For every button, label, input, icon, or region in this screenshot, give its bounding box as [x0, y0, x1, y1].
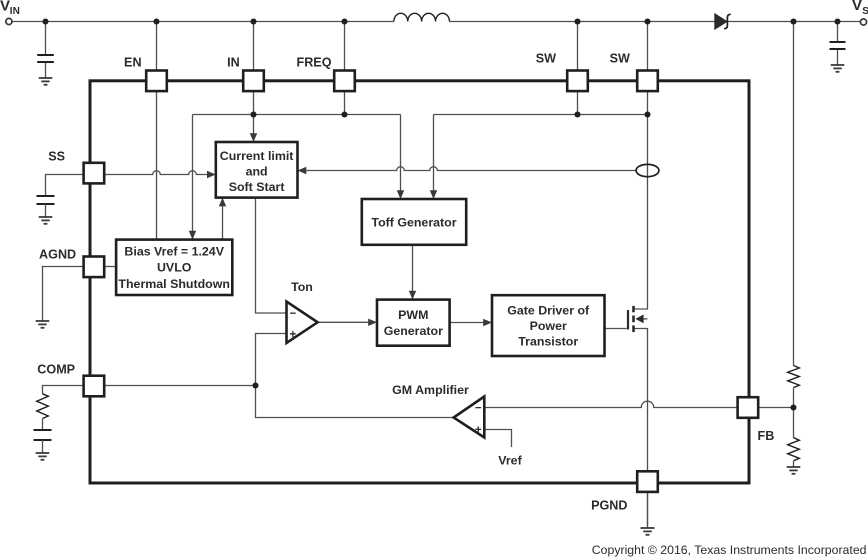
transistor Q1 power MOSFET	[628, 306, 644, 332]
wire IN pin down toward Current limit block	[253, 91, 255, 134]
block U: Gate Driver of Power Transistor	[492, 295, 605, 356]
ground for C_OUT	[831, 65, 845, 72]
block U: PWM Generator	[377, 300, 450, 346]
wire bus down to Toff input 1	[400, 115, 402, 191]
svg-text:IN: IN	[227, 56, 240, 70]
svg-text:AGND: AGND	[39, 248, 76, 262]
svg-text:Power: Power	[530, 319, 567, 333]
svg-text:−: −	[290, 308, 297, 320]
pin FREQ	[297, 56, 355, 92]
wire IN pin to rail	[253, 22, 255, 71]
wire Ton non-inverting input to COMP node	[256, 334, 454, 418]
wire top rail: diode to VS terminal	[728, 21, 861, 23]
ground for PGND	[641, 528, 655, 535]
svg-text:UVLO: UVLO	[157, 261, 192, 275]
ground for AGND	[36, 321, 50, 328]
svg-text:FREQ: FREQ	[297, 56, 332, 70]
svg-text:Gate Driver of: Gate Driver of	[507, 304, 590, 318]
svg-text:FB: FB	[758, 429, 775, 443]
svg-text:V: V	[0, 0, 10, 14]
wire SW pin 2 to rail	[647, 22, 649, 71]
pin PGND	[591, 471, 658, 512]
wire MOSFET source down through PGND	[635, 329, 648, 527]
wire COMP pin to compensation network	[43, 386, 84, 394]
resistor R2 lower feedback	[788, 438, 800, 461]
svg-text:PWM: PWM	[398, 308, 428, 322]
svg-text:Current limit: Current limit	[220, 149, 294, 163]
wire SW pin 1 down to bus	[577, 91, 579, 114]
label VS	[852, 0, 868, 17]
svg-text:Vref: Vref	[498, 454, 522, 468]
terminal VS	[860, 19, 866, 25]
capacitor C_IN	[37, 55, 54, 62]
svg-text:V: V	[852, 0, 862, 14]
svg-text:+: +	[475, 425, 482, 437]
junction dot COMP node	[252, 382, 258, 388]
wire Ton output to PWM Generator	[318, 321, 369, 323]
wire AGND pin to Bias block	[104, 266, 116, 268]
svg-text:Thermal Shutdown: Thermal Shutdown	[118, 277, 230, 291]
pin FB	[738, 397, 775, 443]
wire EN pin to rail	[156, 22, 158, 71]
svg-text:Bias Vref = 1.24V: Bias Vref = 1.24V	[124, 244, 224, 258]
svg-text:Ton: Ton	[291, 280, 313, 294]
svg-text:Soft Start: Soft Start	[229, 180, 285, 194]
junction dot FB divider node	[790, 404, 796, 410]
comparator Ton	[287, 280, 318, 343]
arrowhead PWM into Gate Driver left	[483, 319, 492, 326]
resistor R_COMP	[37, 394, 49, 419]
wire SW pin 2 down to MOSFET drain	[635, 91, 648, 309]
wire C_COMP to ground	[42, 440, 44, 453]
svg-text:Copyright © 2016, Texas Instru: Copyright © 2016, Texas Instruments Inco…	[592, 543, 867, 557]
block U: Current limit and Soft Start	[216, 142, 298, 198]
pin AGND	[39, 248, 104, 278]
svg-text:Transistor: Transistor	[518, 334, 578, 348]
svg-text:PGND: PGND	[591, 499, 627, 513]
arrowhead Bias into Current limit bottom	[219, 198, 226, 207]
wire R_COMP to C_COMP	[42, 419, 44, 431]
wire FREQ pin down to bus	[344, 91, 346, 114]
wire PGND pin to ground	[647, 492, 649, 528]
ground for compensation network	[36, 453, 50, 460]
IC boundary box	[90, 81, 749, 483]
svg-text:and: and	[246, 165, 268, 179]
arrowhead into Toff input 1	[397, 190, 404, 199]
wire AGND pin to external ground	[43, 267, 84, 321]
block U: Bias Vref UVLO Thermal Shutdown	[116, 240, 232, 295]
wire Current limit down to Ton inverting input	[256, 198, 287, 313]
junction dots on internal bus	[250, 111, 650, 117]
resistor R1 upper feedback	[788, 366, 800, 388]
ground for C_SS	[39, 217, 53, 224]
wire current sense line with hops	[306, 167, 636, 171]
wire FREQ pin to rail	[344, 22, 346, 71]
svg-text:EN: EN	[124, 56, 142, 70]
block U: Toff Generator	[362, 199, 466, 245]
wire MOSFET body connection	[643, 318, 647, 320]
wire R2 to ground	[793, 461, 795, 467]
arrowhead into Current limit top	[250, 133, 257, 142]
wire Gate Driver to MOSFET gate	[605, 328, 627, 330]
wire output cap leads	[837, 22, 839, 43]
label VIN	[0, 0, 20, 17]
svg-text:GM Amplifier: GM Amplifier	[392, 383, 469, 397]
svg-text:SW: SW	[536, 52, 556, 66]
wire input cap leads	[45, 22, 47, 56]
wire bus down to Toff input 2	[433, 115, 435, 191]
arrowhead sense into Current limit right	[298, 167, 307, 174]
svg-text:SS: SS	[48, 150, 65, 164]
wire SS pin to Current limit with hops	[104, 171, 207, 175]
arrowhead Ton into PWM left	[368, 319, 377, 326]
pin SW 1	[536, 52, 588, 92]
current sense ellipse	[636, 164, 659, 176]
arrowhead Toff into PWM top	[409, 291, 416, 300]
pin IN	[227, 56, 264, 92]
wire bus down into Bias block	[192, 115, 194, 232]
arrowhead SS into Current limit left	[207, 171, 216, 178]
arrowhead into Toff input 2	[430, 190, 437, 199]
capacitor C_SS	[37, 196, 55, 204]
svg-text:−: −	[475, 402, 482, 414]
svg-text:IN: IN	[10, 6, 20, 17]
schottky diode D1	[715, 14, 731, 29]
svg-text:COMP: COMP	[37, 363, 75, 377]
svg-text:S: S	[862, 6, 868, 17]
wire SW pin 1 to rail	[577, 22, 579, 71]
wire between feedback resistors	[793, 388, 795, 438]
svg-text:+: +	[290, 329, 297, 341]
wire Bias block up to Current limit	[222, 206, 224, 239]
svg-text:Generator: Generator	[384, 324, 443, 338]
pin EN	[124, 56, 167, 92]
wire FB divider from rail	[793, 22, 795, 366]
pin SW 2	[610, 52, 658, 92]
ground for feedback divider	[787, 467, 801, 474]
wire C_SS to ground	[45, 204, 47, 217]
pin COMP	[37, 363, 104, 397]
wire EN pin down to Bias block	[156, 91, 158, 240]
wire GM amplifier non-inverting input to Vref	[484, 430, 511, 448]
ground for C_IN	[39, 78, 53, 85]
capacitor C_OUT	[830, 42, 846, 49]
arrowhead into Bias top	[189, 231, 196, 240]
wire COMP pin to node	[104, 385, 255, 387]
capacitor C_COMP	[34, 430, 52, 440]
wire top rail: inductor to diode	[450, 21, 715, 23]
pin SS	[48, 150, 104, 184]
wire internal bus right segment	[434, 114, 648, 116]
wire top rail: VIN to inductor	[13, 21, 394, 23]
op-amp GM Amplifier	[392, 383, 484, 438]
svg-text:SW: SW	[610, 52, 630, 66]
svg-text:Toff Generator: Toff Generator	[371, 215, 456, 229]
wire Toff Generator to PWM Generator	[412, 245, 414, 291]
wire SS pin to soft-start cap	[46, 175, 84, 196]
terminal VIN	[6, 18, 12, 24]
inductor L1	[394, 13, 450, 21]
wire PWM Generator to Gate Driver	[450, 322, 484, 324]
junction dots on top rail	[42, 18, 840, 24]
wire internal bus left segment	[193, 114, 401, 116]
wire GM amplifier inverting input to FB divider with hop	[484, 401, 793, 407]
